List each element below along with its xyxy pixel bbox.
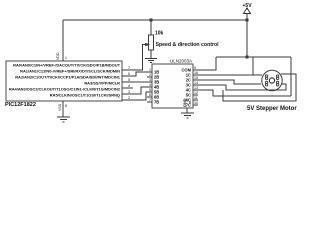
- wire +5V rail y57: [216, 56, 291, 58]
- wire ULN GND to ground: [186, 108, 188, 113]
- wire pot bottom to ground: [150, 50, 152, 58]
- svg-text:PIC12F1822: PIC12F1822: [5, 102, 36, 108]
- svg-text:10: 10: [194, 101, 198, 105]
- svg-text:1: 1: [149, 68, 151, 72]
- junction node at +5V y57: [246, 56, 249, 59]
- wire PIC VSS to ground: [62, 101, 64, 117]
- pin VDD stub: [62, 56, 64, 61]
- PIC pin name rows: [9, 63, 121, 98]
- potentiometer RV1 10k: [143, 35, 154, 50]
- svg-text:VDD: VDD: [56, 52, 60, 60]
- svg-text:ULN2003A: ULN2003A: [170, 59, 192, 64]
- ULN left pin stubs: [147, 72, 152, 102]
- ULN right pin stubs: [193, 70, 198, 90]
- svg-text:RA1/AN1/C12IN0-/VREF+/SRI/RX/D: RA1/AN1/C12IN0-/VREF+/SRI/RX/DT/SCL/SCK/…: [20, 69, 120, 74]
- svg-text:3: 3: [128, 90, 130, 94]
- wire outer loop: [223, 74, 296, 101]
- coil right-bottom: [276, 81, 278, 83]
- PIC pin numbers: [128, 66, 130, 100]
- wire motor right common riser: [290, 57, 292, 96]
- svg-text:VSS: VSS: [58, 103, 62, 111]
- power +5V symbol: [244, 8, 251, 14]
- PIC pin stubs right: [122, 70, 127, 100]
- wire pot top: [150, 20, 152, 35]
- ground pot: [145, 59, 157, 63]
- wire COM riser: [198, 57, 216, 70]
- motor M1 coils: [265, 75, 278, 86]
- coil right-top: [276, 75, 278, 77]
- ULN left pin names: [154, 70, 159, 105]
- svg-text:15: 15: [194, 76, 198, 80]
- svg-text:6: 6: [149, 93, 151, 97]
- svg-text:2: 2: [149, 73, 151, 77]
- ULN left pin numbers: [149, 68, 151, 102]
- PIC12F1822 U1 box: [6, 61, 122, 101]
- svg-text:GND: GND: [183, 98, 187, 107]
- svg-text:RA3/SS/VPP/MCLR: RA3/SS/VPP/MCLR: [84, 81, 120, 86]
- svg-text:13: 13: [194, 86, 198, 90]
- svg-text:2: 2: [128, 96, 130, 100]
- coil left-top: [265, 75, 267, 77]
- coil left-bottom: [265, 81, 267, 83]
- svg-text:9: 9: [194, 66, 196, 70]
- svg-text:7: 7: [149, 98, 151, 102]
- svg-text:4: 4: [128, 84, 130, 88]
- svg-text:+5V: +5V: [243, 3, 253, 9]
- svg-text:7B: 7B: [154, 100, 159, 105]
- ULN2003A U2 box: [152, 64, 193, 108]
- wire RA2 to 2B: [127, 81, 147, 83]
- svg-text:5: 5: [149, 88, 151, 92]
- power +5V vertical: [246, 13, 248, 57]
- svg-text:16: 16: [194, 71, 198, 75]
- svg-text:RA5/CLKIN/OSC1/T1OSI/T1CKI/SRN: RA5/CLKIN/OSC1/T1OSI/T1CKI/SRNQ: [50, 93, 120, 98]
- pin stub RA3: [127, 87, 133, 89]
- svg-text:RA0/AN0/C1IN+/VREF-/DACOUT/TX/: RA0/AN0/C1IN+/VREF-/DACOUT/TX/CK/SDO/P1B…: [13, 63, 120, 68]
- junction node pot top: [150, 19, 153, 22]
- svg-text:RA2/AN2/C1OUT/T0CKI/CCP1/P1A/S: RA2/AN2/C1OUT/T0CKI/CCP1/P1A/SDA/SDI/INT…: [15, 75, 121, 80]
- svg-text:14: 14: [194, 81, 198, 85]
- ULN right pin numbers: [194, 66, 198, 105]
- pin stub 7C: [193, 104, 198, 106]
- wire RA4 to 3B: [127, 87, 147, 94]
- wire 4C to motor right-top: [198, 90, 291, 96]
- svg-text:10k: 10k: [155, 31, 164, 37]
- junction node at +5V/VDD rail: [246, 19, 249, 22]
- wire +5V left drop to motor: [252, 57, 254, 75]
- wire 3C to motor right-bottom: [198, 84, 286, 90]
- wire VDD rail top: [63, 19, 247, 21]
- wire RA1 to 1B: [127, 72, 147, 76]
- svg-text:4: 4: [149, 83, 151, 87]
- svg-text:7: 7: [128, 66, 130, 70]
- ground ULN GND: [181, 113, 194, 118]
- wire RA5 to 4B: [127, 92, 147, 100]
- svg-text:1: 1: [65, 56, 67, 60]
- wire VDD drop to PIC pin 1: [62, 20, 64, 61]
- svg-text:5: 5: [128, 78, 130, 82]
- svg-text:11: 11: [194, 96, 198, 100]
- wire pot wiper to RA0: [127, 45, 146, 71]
- svg-text:5V Stepper Motor: 5V Stepper Motor: [247, 106, 297, 112]
- svg-text:3: 3: [149, 78, 151, 82]
- svg-text:6: 6: [128, 72, 130, 76]
- pin stub 5C: [193, 94, 198, 96]
- ground PIC VSS: [57, 117, 70, 122]
- wire 2C to motor left-bottom: [198, 80, 261, 84]
- pin stub 6C: [193, 99, 198, 101]
- svg-text:8: 8: [189, 101, 191, 105]
- svg-text:Speed & direction control: Speed & direction control: [156, 42, 220, 48]
- svg-text:12: 12: [194, 91, 198, 95]
- svg-text:8: 8: [65, 104, 67, 108]
- ULN right pin names: [181, 68, 191, 108]
- wire motor right-top feed: [281, 73, 291, 75]
- wire 1C to motor left-top: [198, 74, 262, 76]
- svg-text:RA4/AN3/OSC2/CLKOUT/T1OSO/C1IN: RA4/AN3/OSC2/CLKOUT/T1OSO/C1IN1-/CLKR/T1…: [9, 87, 121, 92]
- motor M1 body: [262, 70, 282, 90]
